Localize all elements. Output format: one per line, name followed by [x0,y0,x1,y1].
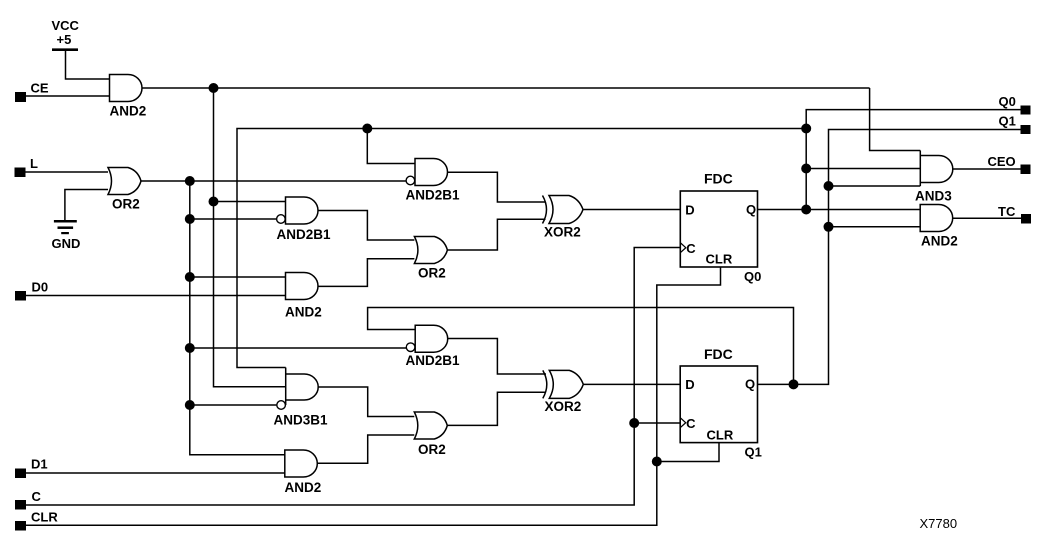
svg-text:Q0: Q0 [744,269,761,284]
wire U15 Q output [757,383,793,385]
or-gate U6B OR2 (bottom) [414,412,447,439]
wire CLR to FDC U15 clear [657,443,719,462]
wire U14 output to FDC U15 D [583,383,680,385]
wire U10 output to OR2 U6B [317,435,414,463]
wire to AND2B1 U9 bubble [190,347,407,349]
svg-text:FDC: FDC [704,346,733,362]
wire Q0 to AND3 U12 mid input [806,168,920,170]
and-gate U3 AND2B1 (top middle) [415,159,448,186]
wire net C to FDC U8 clock [25,248,680,506]
junction B1 to U11 bubble [185,400,195,410]
wire net Q1 right bus to terminal [794,130,1021,385]
junction Q1 to AND3 U12 bottom [824,181,834,191]
flip-flop U8 FDC (bit0) [680,191,757,267]
svg-text:FDC: FDC [704,171,733,187]
wire net Q1 feedback to AND2B1 U9 top input [368,308,794,385]
svg-text:CE: CE [31,81,49,96]
and-gate U10 AND2 (D1 gate) [285,450,318,477]
wire C to FDC U15 clock [634,422,680,424]
svg-text:D: D [685,203,694,218]
wire U6 output to XOR2 U7 bottom input [447,219,545,250]
svg-text:AND2B1: AND2B1 [277,227,332,242]
wire U6B output to XOR2 U14 bottom input [447,392,546,425]
xor-gate U7 XOR2 (bit0) [543,196,547,224]
svg-text:CLR: CLR [707,428,734,443]
terminal D1 [15,469,26,479]
svg-text:Q1: Q1 [745,445,762,460]
wire VCC stem to AND2 U1 input [66,50,110,79]
svg-text:+5: +5 [57,32,72,47]
wire net Q0 feedback horizontal + bus B3 to U11 top input [237,129,806,368]
svg-text:AND3: AND3 [915,189,952,204]
svg-text:C: C [686,241,696,256]
svg-text:Q: Q [746,202,756,217]
svg-text:AND2: AND2 [110,104,147,119]
svg-text:D: D [685,377,694,392]
svg-text:Q1: Q1 [999,114,1016,129]
svg-text:C: C [32,489,42,504]
terminal L [15,168,26,178]
svg-text:CLR: CLR [706,252,733,267]
wire net CLR to FDC U8 clear [26,267,721,525]
and-gate U11 AND3B1 [285,368,287,406]
svg-text:OR2: OR2 [418,442,446,457]
xor-gate U14 XOR2 (bit1) [543,370,547,398]
wire CEQ drop to AND3 U12 top input [870,88,921,151]
svg-text:XOR2: XOR2 [545,399,582,414]
svg-text:OR2: OR2 [112,197,140,212]
svg-text:AND3B1: AND3B1 [274,413,329,428]
and-gate U5 AND2 (D0 gate) [286,273,319,300]
junction CEQ/B2 [209,83,219,93]
wire Q0fb drop to AND2B1 U3 top input [367,129,415,164]
svg-text:L: L [30,156,38,171]
wire bus B1 left (U2 out) down to AND2 U10 [190,181,285,455]
wire to AND2 U5 input [190,276,286,278]
junction C to U15 clock [629,418,639,428]
wire D1 to AND2 U10 [26,472,285,474]
svg-text:AND2: AND2 [285,480,322,495]
wire Q1 to AND3 U12 bottom input [829,185,921,187]
wire U11 output to OR2 U6B [318,387,414,417]
svg-text:GND: GND [52,236,81,251]
terminal Q0 [1021,106,1031,115]
wire U9 output to XOR2 U14 top input [448,339,546,375]
wire U5 output to OR2 U6 [318,259,414,287]
wire U7 output to FDC U8 D [583,209,680,211]
svg-text:D1: D1 [31,457,48,472]
wire net Q0 to terminal [806,110,1020,210]
wire to AND2B1 U4 top input [214,201,286,203]
svg-text:Q: Q [745,377,755,392]
svg-text:OR2: OR2 [418,266,446,281]
wire D0 to AND2 U5 [26,295,286,297]
svg-text:X7780: X7780 [920,516,958,531]
wire CE to AND2 U1 [26,95,110,97]
wire U2 output to AND2B1 U3 bubble [141,180,406,182]
svg-text:AND2B1: AND2B1 [406,353,461,368]
wire U8 Q to AND2 U13 top input [758,209,921,211]
terminal TC [1021,214,1031,224]
junction Q0 at right bus [801,205,811,215]
flip-flop U15 FDC (bit1) [680,366,757,443]
ground GND bars [54,220,77,223]
svg-text:AND2B1: AND2B1 [406,188,461,203]
wire U12 output to CEO [952,168,1021,170]
wire U13 output to TC [952,217,1021,219]
junction B2 to U4 input [209,197,219,207]
and-gate U1 AND2 (CE gate) [110,75,143,102]
svg-text:AND2: AND2 [921,234,958,249]
terminal D0 [15,291,26,301]
svg-text:CLR: CLR [31,510,58,525]
junction Q0fb at right bus [801,124,811,134]
wire U3 output to XOR2 U7 top input [448,172,546,202]
wire to AND2B1 U4 bubble [190,218,276,220]
junction B1 to U9 bubble [185,343,195,353]
wire bus B2 (U1 out) down to AND3B1 U11 mid input [214,88,286,387]
junction Q0 to AND3 U12 mid [801,164,811,174]
svg-text:XOR2: XOR2 [544,225,581,240]
wire Q1 to AND2 U13 bottom input [829,226,921,228]
junction B1 to U4 bubble [185,214,195,224]
svg-text:AND2: AND2 [285,305,322,320]
terminal Q1 [1021,125,1031,134]
junction Q0fb to U3 drop [362,124,372,134]
wire L to OR2 U2 [26,171,109,173]
terminal C [15,500,26,510]
junction Q1 to AND2 U13 bottom [824,222,834,232]
wire to AND3B1 U11 bubble [190,404,277,406]
svg-text:C: C [686,416,696,431]
junction LDQ bus [185,176,195,186]
ground GND stem [65,190,108,221]
svg-text:TC: TC [998,204,1016,219]
svg-text:CEO: CEO [988,154,1016,169]
svg-text:D0: D0 [32,280,49,295]
svg-text:VCC: VCC [52,18,80,33]
wire U1 output net CEQ [142,87,870,89]
power symbol VCC bar [52,48,78,51]
junction Q1 at U15 output [789,379,799,389]
and-gate U12 AND3 (CEO gate) [919,151,921,187]
wire U4 output to OR2 U6 [318,211,414,241]
and-gate U9 AND2B1 (bottom) [415,325,448,352]
or-gate U6 OR2 (middle) [414,237,447,264]
terminal CEO [1021,165,1031,175]
svg-text:Q0: Q0 [999,94,1016,109]
and-gate U13 AND2 (TC gate) [920,205,952,232]
and-gate U4 AND2B1 (left middle) [286,197,319,224]
or-gate U2 OR2 (L gate) [108,168,141,195]
terminal CE [15,92,26,102]
junction CLR to U15 clear [652,457,662,467]
junction B1 to U5 input [185,272,195,282]
terminal CLR [15,521,26,531]
